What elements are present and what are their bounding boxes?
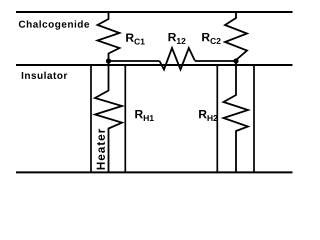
resistor RH1 xyxy=(95,61,122,172)
label Insulator xyxy=(22,72,67,79)
label R12 xyxy=(169,33,186,44)
resistor R12 xyxy=(160,48,195,70)
bottom electrode line xyxy=(16,171,293,173)
left heater column right wall xyxy=(124,65,126,172)
label RC2 xyxy=(202,33,220,44)
node dot 1 xyxy=(106,58,111,63)
node dot 2 xyxy=(233,58,238,63)
resistor RC1 xyxy=(98,13,120,60)
resistor RC2 xyxy=(225,13,247,60)
wire R12 to dot2 xyxy=(195,60,236,62)
wire dot1 to R12 xyxy=(109,60,160,62)
chalcogenide/insulator boundary line xyxy=(16,64,293,66)
top electrode line xyxy=(16,11,293,13)
label RH2 xyxy=(199,110,217,121)
resistor RH2 xyxy=(224,61,249,172)
right heater column right wall xyxy=(253,65,255,172)
label RC1 xyxy=(126,34,145,45)
label Heater (rotated) xyxy=(97,129,105,170)
label Chalcogenide xyxy=(19,20,89,29)
right heater column left wall xyxy=(216,65,218,172)
label RH1 xyxy=(135,110,154,121)
left heater column left wall xyxy=(90,65,92,172)
